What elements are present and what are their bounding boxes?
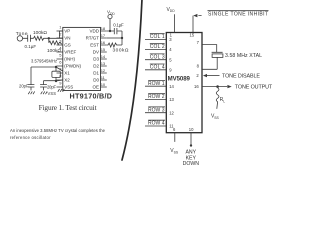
svg-text:15: 15 <box>101 47 106 52</box>
svg-text:0.1µF: 0.1µF <box>25 44 37 49</box>
svg-text:RT/GT: RT/GT <box>86 35 100 40</box>
svg-text:Figure 1. Test circuit: Figure 1. Test circuit <box>39 103 97 112</box>
svg-text:6: 6 <box>59 60 62 65</box>
svg-text:2: 2 <box>196 73 199 78</box>
svg-text:ROW 4: ROW 4 <box>148 121 165 127</box>
svg-text:COL 1: COL 1 <box>150 34 165 40</box>
svg-text:2: 2 <box>59 32 62 37</box>
svg-text:13: 13 <box>169 97 174 102</box>
svg-text:3.579545MHz: 3.579545MHz <box>31 59 57 64</box>
svg-text:8: 8 <box>59 74 62 79</box>
svg-text:EST: EST <box>90 42 99 47</box>
svg-text:COL 3: COL 3 <box>150 54 165 60</box>
svg-text:5: 5 <box>169 57 172 62</box>
svg-text:D3: D3 <box>93 56 99 61</box>
svg-text:DD: DD <box>170 9 175 13</box>
svg-text:16: 16 <box>194 84 199 89</box>
svg-text:13: 13 <box>101 61 106 66</box>
svg-text:10: 10 <box>101 82 106 87</box>
svg-text:TONE OUTPUT: TONE OUTPUT <box>235 84 273 90</box>
svg-text:(PWDN): (PWDN) <box>64 63 81 68</box>
svg-text:COL 2: COL 2 <box>150 44 165 50</box>
svg-text:300kΩ: 300kΩ <box>113 48 129 54</box>
svg-text:0.1µF: 0.1µF <box>113 22 124 27</box>
svg-text:VP: VP <box>64 28 70 33</box>
svg-text:VSS: VSS <box>48 91 57 96</box>
svg-text:4: 4 <box>169 47 172 52</box>
svg-text:X2: X2 <box>64 77 70 82</box>
svg-text:12: 12 <box>169 110 174 115</box>
svg-text:An inexpensive 3.58MHz TV crys: An inexpensive 3.58MHz TV crystal comple… <box>10 128 106 133</box>
svg-text:DD: DD <box>110 12 115 16</box>
svg-text:8: 8 <box>197 64 200 69</box>
svg-text:ROW 1: ROW 1 <box>148 81 165 87</box>
svg-text:14: 14 <box>101 54 106 59</box>
svg-text:7: 7 <box>197 40 200 45</box>
svg-text:DV: DV <box>93 49 99 54</box>
svg-text:100kΩ: 100kΩ <box>33 30 47 36</box>
svg-text:9: 9 <box>59 81 62 86</box>
svg-text:GS: GS <box>64 42 71 47</box>
svg-text:SS: SS <box>174 150 179 154</box>
svg-text:VN: VN <box>64 35 70 40</box>
svg-text:14: 14 <box>169 84 174 89</box>
svg-text:D1: D1 <box>93 70 99 75</box>
svg-text:DOWN: DOWN <box>183 161 200 167</box>
svg-text:VREF: VREF <box>64 49 76 54</box>
svg-text:TONE DISABLE: TONE DISABLE <box>222 73 260 79</box>
svg-text:100kΩ: 100kΩ <box>47 48 61 54</box>
svg-text:15: 15 <box>190 33 195 38</box>
svg-text:X1: X1 <box>64 70 70 75</box>
svg-text:VDD: VDD <box>89 28 99 33</box>
svg-text:COL 4: COL 4 <box>150 65 165 71</box>
svg-text:9: 9 <box>169 67 172 72</box>
svg-text:reference oscillator: reference oscillator <box>10 135 51 140</box>
svg-text:20pF: 20pF <box>47 84 56 89</box>
svg-text:MV5089: MV5089 <box>168 75 191 82</box>
svg-text:ROW 3: ROW 3 <box>148 107 165 113</box>
svg-text:Tone: Tone <box>16 31 28 37</box>
svg-text:1: 1 <box>59 25 62 30</box>
svg-text:(INH): (INH) <box>64 56 75 61</box>
svg-text:L: L <box>223 99 225 103</box>
svg-text:D2: D2 <box>93 63 99 68</box>
svg-text:OE: OE <box>92 84 99 89</box>
svg-text:SINGLE TONE INHIBIT: SINGLE TONE INHIBIT <box>208 12 268 18</box>
svg-text:12: 12 <box>101 68 106 73</box>
svg-text:18: 18 <box>101 26 106 31</box>
svg-text:3: 3 <box>59 39 62 44</box>
svg-text:17: 17 <box>101 33 106 38</box>
svg-text:16: 16 <box>101 40 106 45</box>
svg-text:HT9170/B/D: HT9170/B/D <box>70 91 113 100</box>
svg-text:D0: D0 <box>93 77 99 82</box>
svg-text:ROW 2: ROW 2 <box>148 94 165 100</box>
svg-text:SS: SS <box>214 116 219 120</box>
svg-text:3.58 MHz XTAL: 3.58 MHz XTAL <box>225 53 262 59</box>
svg-text:11: 11 <box>101 75 106 80</box>
svg-text:6: 6 <box>173 127 176 132</box>
svg-text:ANY: ANY <box>185 149 196 155</box>
svg-text:VSS: VSS <box>64 84 73 89</box>
svg-text:20pF: 20pF <box>19 84 29 89</box>
svg-text:3: 3 <box>169 37 172 42</box>
svg-text:10: 10 <box>189 127 194 132</box>
